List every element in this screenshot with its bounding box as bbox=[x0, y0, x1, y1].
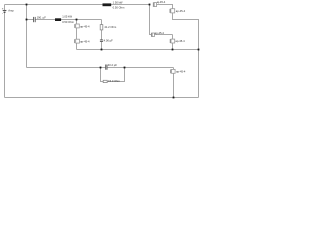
wire from Q top down to y=19.5 and right rail bbox=[173, 13, 199, 98]
transistor Q2 ap-45-4 second chain bbox=[170, 39, 185, 43]
node junction dot lower bus x=124.5 bbox=[124, 67, 126, 69]
svg-text:15.0 Ohm: 15.0 Ohm bbox=[108, 79, 121, 83]
node junction dot lower bus x=100.5 bbox=[100, 67, 102, 69]
svg-text:ap-45-4: ap-45-4 bbox=[80, 39, 90, 43]
capacitor C3 aj-45-4 in series on top rail bbox=[153, 0, 165, 7]
capacitor C5 40.2uF on lower bus bbox=[106, 63, 118, 70]
node junction dot mid horizontal x=101.5 bbox=[101, 49, 103, 51]
node junction dot top rail x=26.5 bbox=[26, 4, 28, 6]
wire mid horizontal y=49.5 bbox=[77, 49, 199, 51]
svg-text:41.2 Ohm: 41.2 Ohm bbox=[104, 25, 117, 29]
resistor R3 41.2 Ohm open box bbox=[100, 25, 117, 30]
wire Q2 lead down to mid bus bbox=[172, 35, 174, 50]
wire parallel RC loop bbox=[101, 68, 125, 82]
svg-text:ap-45-4: ap-45-4 bbox=[176, 70, 186, 74]
wire transistor branch x=76.5 bbox=[76, 20, 78, 50]
resistor R2 1.05k filled on mid bus bbox=[55, 14, 75, 24]
resistor R1 1.50k filled on top rail bbox=[103, 0, 126, 9]
capacitor C1 190uF on mid bus bbox=[34, 15, 47, 22]
svg-text:ap-45-4: ap-45-4 bbox=[155, 31, 165, 35]
svg-text:190. µF: 190. µF bbox=[37, 15, 47, 19]
voltage source V1 battery bbox=[2, 7, 15, 16]
transistor Q1 ap-45-4 top right bbox=[170, 9, 186, 13]
capacitor C4 ap-45-4 in series on second chain bbox=[151, 31, 164, 37]
svg-text:0.50 Ohm: 0.50 Ohm bbox=[62, 20, 75, 24]
node junction dot bottom rail x=173.5 bbox=[173, 97, 175, 99]
wire lower bus y=67.5 bbox=[27, 67, 174, 69]
node junction dot mid bus x=26.5 bbox=[26, 19, 28, 21]
node junction dot mid horizontal x=198.5 bbox=[198, 49, 200, 51]
wire lower-right transistor leads bbox=[173, 68, 175, 98]
svg-text:1.50 kW: 1.50 kW bbox=[113, 0, 123, 4]
transistor Q5 ap-45-4 bottom right bbox=[171, 69, 186, 73]
wire top rail y=4.5 from left rail to node bbox=[5, 4, 150, 6]
wire left rail x=4.5 upper segment bbox=[4, 5, 6, 11]
svg-text:aj-45-4: aj-45-4 bbox=[157, 0, 166, 4]
transistor Q4 ap-45-4 lower of mid branch bbox=[75, 39, 90, 43]
node junction dot mid horizontal x=172.5 bbox=[172, 49, 174, 51]
node junction dot mid bus x=76.5 bbox=[76, 19, 78, 21]
wire RC branch x=101.5 bbox=[101, 20, 103, 50]
svg-text:+: + bbox=[2, 7, 4, 11]
svg-text:ap-45-4: ap-45-4 bbox=[175, 39, 185, 43]
svg-text:1.05 kW: 1.05 kW bbox=[62, 14, 72, 18]
node junction dot top rail x=149.5 bbox=[149, 4, 151, 6]
svg-text:0.50 Ohm: 0.50 Ohm bbox=[113, 5, 126, 9]
transistor Q3 ap-45-4 upper of mid branch bbox=[75, 24, 90, 28]
resistor R4 15.0 Ohm open box in RC loop bbox=[103, 79, 120, 83]
wire mid bus y=19.5 bbox=[27, 19, 102, 21]
svg-text:Amp: Amp bbox=[8, 8, 14, 12]
wire bottom rail y=97.5 bbox=[5, 97, 199, 99]
svg-text:ap-45-4: ap-45-4 bbox=[176, 9, 186, 13]
svg-text:-: - bbox=[2, 12, 3, 16]
wire vertical x=26.5 from top rail down to lower bus bbox=[26, 5, 28, 68]
wire right chain from node x=149.5 down and right y=34.5 bbox=[150, 5, 173, 35]
svg-text:40.2 µF: 40.2 µF bbox=[108, 63, 118, 67]
wire left rail x=4.5 lower segment bbox=[4, 13, 6, 98]
capacitor C2 4.00uF in RC branch bbox=[100, 39, 113, 43]
svg-text:4.00 µF: 4.00 µF bbox=[104, 39, 114, 43]
svg-text:ap-45-4: ap-45-4 bbox=[80, 24, 90, 28]
wire top-right segment after C into Q bbox=[157, 5, 173, 9]
